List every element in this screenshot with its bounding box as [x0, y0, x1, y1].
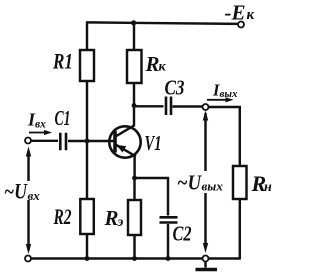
- wire R1 bottom to base node: [86, 81, 88, 142]
- wire C2 to bottom rail: [167, 224, 169, 259]
- svg-text:R2: R2: [53, 204, 72, 229]
- wire C2 branch down: [167, 177, 169, 216]
- node input terminal ring bottom: [25, 256, 31, 262]
- svg-text:вх: вх: [28, 188, 41, 203]
- Ivx current arrow: [29, 132, 46, 134]
- node -Ek terminal ring: [238, 22, 244, 28]
- capacitor C3: [166, 97, 171, 116]
- svg-text:C3: C3: [165, 76, 185, 100]
- junction base node: [85, 139, 90, 144]
- svg-text:R1: R1: [52, 49, 73, 74]
- wire right branch down to Rn: [239, 106, 241, 166]
- svg-text:R: R: [104, 206, 119, 230]
- capacitor C1: [60, 133, 66, 150]
- svg-text:вых: вых: [202, 179, 224, 194]
- svg-text:э: э: [117, 215, 124, 230]
- Ivyx current arrow: [207, 99, 227, 101]
- wire input to C1: [31, 140, 58, 142]
- transistor V1 emitter arrow (PNP, pointing to base): [116, 145, 126, 153]
- svg-text:~U: ~U: [4, 179, 28, 204]
- Uvx dimension arrow line: [27, 151, 29, 250]
- resistor R1: [80, 50, 94, 81]
- junction C2 / rail: [166, 256, 171, 261]
- junction Re / rail: [132, 256, 137, 261]
- wire output node to right branch: [209, 106, 242, 108]
- wire emitter down: [133, 154, 135, 180]
- svg-text:R: R: [145, 52, 160, 76]
- svg-text:вых: вых: [220, 88, 239, 100]
- wire R1 top (rail to R1): [86, 21, 88, 50]
- wire C1 to base: [68, 140, 114, 142]
- wire C3 to output node: [173, 105, 203, 107]
- wire Re to bottom rail: [133, 235, 135, 259]
- junction top rail / Rk: [131, 20, 136, 25]
- node input terminal ring top: [25, 138, 31, 144]
- transistor V1 collector arm: [116, 126, 135, 137]
- svg-text:н: н: [264, 180, 272, 195]
- transistor V1 circle: [109, 126, 140, 157]
- wire R2 branch (base node down): [86, 141, 88, 199]
- ground: [204, 262, 206, 268]
- resistor Rn: [233, 166, 247, 199]
- junction R2 / rail: [85, 256, 90, 261]
- svg-text:C1: C1: [55, 106, 71, 130]
- svg-text:к: к: [159, 60, 167, 75]
- resistor Rk: [127, 50, 142, 83]
- svg-text:вх: вх: [35, 119, 46, 131]
- wire Rk bottom to collector node: [133, 83, 135, 106]
- wire collector arm to collector node: [133, 105, 135, 127]
- junction emitter node: [132, 176, 137, 181]
- node ground terminal ring: [203, 256, 209, 262]
- junction collector node: [132, 103, 137, 108]
- wire top rail: [87, 22, 238, 24]
- capacitor C2: [160, 217, 178, 222]
- transistor V1 emitter arm: [116, 145, 137, 157]
- svg-text:V1: V1: [145, 131, 162, 155]
- Uvyx dimension arrow line: [204, 113, 206, 248]
- svg-text:-E: -E: [225, 1, 246, 25]
- wire collector node to C3: [134, 105, 164, 107]
- resistor R2: [80, 199, 94, 234]
- resistor Re: [128, 200, 141, 235]
- node output terminal ring: [203, 104, 209, 110]
- wire Rk top: [133, 23, 135, 50]
- wire Re branch (emitter node down): [133, 178, 135, 200]
- wire R2 to bottom rail: [86, 234, 88, 259]
- wire Rn to bottom rail: [239, 199, 241, 259]
- wire emitter node to C2 branch: [135, 177, 170, 179]
- svg-text:~U: ~U: [177, 171, 203, 195]
- wire bottom rail: [30, 257, 241, 260]
- svg-text:к: к: [247, 7, 255, 23]
- svg-text:C2: C2: [173, 222, 192, 246]
- transistor V1 base bar: [113, 131, 117, 153]
